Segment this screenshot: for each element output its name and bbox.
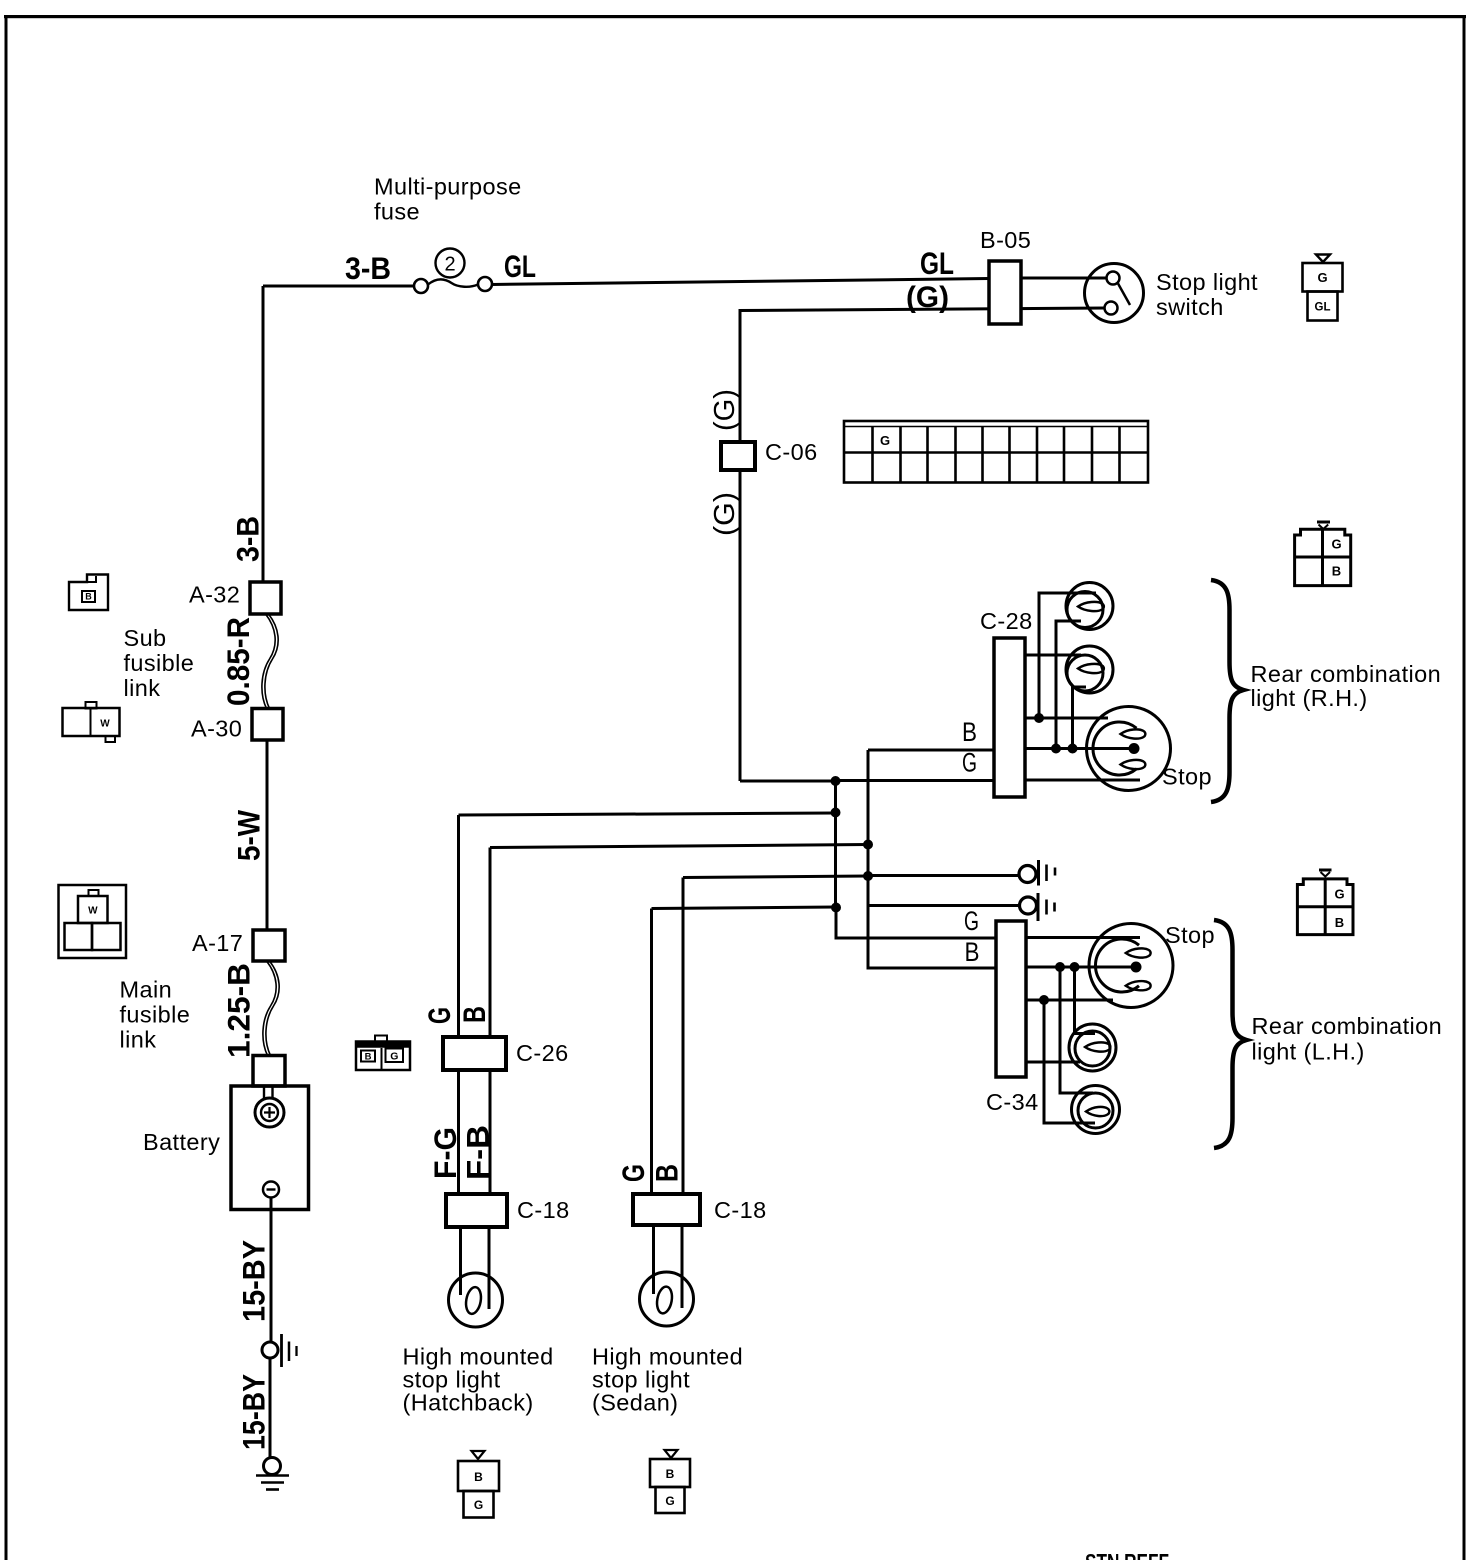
junction dot sedan G [831,903,841,913]
svg-text:F-B: F-B [460,1125,496,1180]
wire 3-B vertical [262,286,265,582]
svg-text:B: B [649,1164,685,1182]
connector icon 2x2 LH [1297,870,1353,935]
connector icon B G side-by-side near C-26 [356,1036,410,1071]
svg-text:3-B: 3-B [230,516,266,562]
svg-text:F-G: F-G [427,1127,463,1179]
wire sedan B riser [683,876,868,1194]
body ground connector 1 [1019,866,1036,883]
svg-text:(G): (G) [906,281,949,314]
svg-text:B: B [1335,915,1344,930]
junction dot pin1 [1034,713,1044,723]
junction dot pin3 LH [1039,995,1049,1005]
svg-text:B: B [456,1006,492,1023]
tail bulb 1 LH lead riser [1044,1000,1095,1123]
svg-text:STN REFF: STN REFF [1085,1549,1169,1560]
junction dot hatchback G [831,808,841,818]
connector icon G/GL triangle [1316,255,1330,263]
fuse number 2 circle [436,249,465,278]
svg-text:G: G [1331,537,1341,552]
tail bulb 2 LH [1069,1024,1116,1071]
wires C-26 to C-18 [459,1070,491,1194]
svg-text:fuse: fuse [374,199,420,225]
connector C-06 [721,442,755,470]
svg-text:fusible: fusible [124,650,195,676]
tail bulb 1 LH top lead riser [1060,967,1093,1093]
wire from B-05 to switch top pin [1021,277,1106,280]
brace RH [1211,580,1244,802]
wire B net vertical [868,750,996,968]
svg-text:B: B [1332,564,1341,579]
stop bulb LH [1089,924,1173,1008]
wires C-18 to hatchback bulb [461,1227,490,1309]
junction dot B1 [1051,744,1061,754]
svg-text:switch: switch [1156,294,1224,320]
tail bulb 1 lead riser [1039,593,1096,718]
svg-text:C-34: C-34 [986,1089,1039,1115]
svg-text:GL: GL [504,248,536,284]
battery plus terminal [255,1098,284,1127]
svg-text:W: W [88,906,98,917]
tail bulb 2 RH [1066,646,1113,693]
stop light switch body [1085,264,1144,323]
svg-text:fusible: fusible [120,1002,191,1028]
connector A-17 [253,930,285,961]
switch lever [1118,284,1130,306]
svg-text:B: B [965,937,980,967]
connector C-26 [443,1037,506,1070]
svg-text:light (L.H.): light (L.H.) [1252,1039,1365,1065]
svg-text:(G): (G) [709,389,741,431]
svg-text:(Sedan): (Sedan) [592,1390,678,1416]
tail bulb 1 RH [1066,583,1113,630]
border frame left [5,15,8,1560]
connector icon B/G sedan [665,1450,678,1458]
svg-text:G: G [665,1494,674,1508]
connector C-18 hatchback [446,1194,507,1227]
connector icon G/GL top cell [1303,263,1343,292]
svg-text:Rear combination: Rear combination [1252,1013,1443,1039]
connector C-28 [994,638,1025,797]
junction dot B2 [1068,744,1078,754]
connector C-34 [996,921,1026,1077]
svg-text:G: G [474,1498,483,1512]
svg-text:C-18: C-18 [517,1197,570,1223]
svg-text:A-32: A-32 [189,582,240,608]
svg-text:Sub: Sub [124,625,167,651]
C-34 G wire to stop bulb arc top [1026,936,1140,939]
tail bulb 2 bottom lead riser [1073,687,1087,749]
wire 15-BY upper [270,1198,273,1343]
wire G net vertical [836,781,997,938]
wire hatchback B riser [490,845,868,1041]
border frame right [1463,15,1466,1560]
svg-text:Multi-purpose: Multi-purpose [374,174,522,200]
switch top contact [1107,272,1120,285]
svg-text:Stop light: Stop light [1156,269,1258,295]
connector icon 2x2 RH [1295,522,1351,586]
wire C-06 drop to G junction [740,780,836,783]
svg-text:A-17: A-17 [192,930,243,956]
svg-text:G: G [615,1164,651,1182]
wire G into C-28 [836,779,995,782]
svg-text:G: G [964,906,979,936]
svg-text:Main: Main [120,977,173,1003]
svg-text:B: B [365,1052,372,1063]
bottom ground [264,1458,281,1475]
svg-text:C-18: C-18 [714,1197,767,1223]
connector icon B/G hatchback [472,1451,485,1459]
battery body [231,1086,309,1210]
tail bulb 1 bottom lead riser [1056,621,1081,749]
svg-text:B: B [962,717,977,747]
fuse F2 left terminal [414,279,428,293]
junction dot in stop bulb RH [1129,743,1140,754]
sub fusible link icon [69,575,108,611]
high mounted stop light bulb hatchback [449,1273,503,1327]
svg-text:G: G [1334,887,1344,902]
svg-text:3-B: 3-B [345,250,391,286]
wires C-18 to sedan bulb [654,1225,683,1308]
svg-text:Rear combination: Rear combination [1251,661,1442,687]
svg-text:link: link [120,1027,157,1053]
connector icon G/GL bottom cell [1308,292,1338,321]
fuse F2 right terminal [478,277,492,291]
wire GL to B-05 [492,279,989,285]
svg-text:0.85-R: 0.85-R [220,617,256,706]
wire G return from switch to C-06 drop [740,308,1105,444]
svg-text:G: G [421,1007,457,1024]
svg-text:B: B [474,1470,483,1484]
svg-text:light (R.H.): light (R.H.) [1251,685,1368,711]
body ground connector 2 [1020,897,1037,914]
wire sedan G riser [652,907,837,1194]
svg-text:G: G [390,1051,398,1063]
svg-text:G: G [880,433,890,448]
battery terminal connector box [253,1056,285,1087]
C-34 pin3 wire to stop bulb arc bottom [1026,999,1113,1002]
wire 15-BY lower [269,1358,272,1458]
tail bulb 2 LH top lead riser [1075,967,1096,1034]
svg-text:15-BY: 15-BY [236,1240,272,1322]
C-34 B wire to stop bulb [1026,966,1136,969]
svg-text:(Hatchback): (Hatchback) [403,1390,534,1416]
C-28 pin1 wire to stop bulb arc top [1025,717,1108,720]
connector A-32 [250,582,281,614]
wire to body ground 2 [868,904,1020,907]
svg-text:B-05: B-05 [980,227,1031,253]
tail bulb 1 LH [1072,1086,1120,1134]
svg-text:Battery: Battery [143,1129,220,1155]
brace LH [1214,920,1247,1148]
svg-text:C-26: C-26 [516,1040,569,1066]
wire hatchback G riser [459,813,836,1040]
mid body ground connector [262,1342,278,1358]
stop bulb RH [1087,707,1171,791]
junction block grid [844,421,1148,483]
svg-text:15-BY: 15-BY [236,1374,272,1450]
main fusible link icon [59,885,127,958]
fuse F2 element curve [428,279,478,286]
svg-text:(G): (G) [709,492,741,536]
wire to body ground 1 [868,874,1019,877]
battery minus terminal [263,1182,279,1198]
connector C-18 sedan [633,1194,700,1225]
svg-text:GL: GL [1315,302,1331,314]
wire below C-06 [739,470,742,781]
fusible link wave A-32 to A-30 [262,614,275,709]
junction dot in stop bulb LH [1131,962,1142,973]
svg-text:W: W [100,719,110,730]
svg-text:C-06: C-06 [765,439,818,465]
junction dot B2 LH [1070,962,1080,972]
svg-text:Stop: Stop [1162,764,1212,790]
border frame top [4,15,1466,18]
svg-text:link: link [124,675,161,701]
connector A-30 [252,709,283,741]
svg-text:C-28: C-28 [980,608,1033,634]
svg-text:B: B [85,592,92,602]
connector icon W single [63,702,120,742]
svg-text:1.25-B: 1.25-B [221,963,257,1058]
svg-text:5-W: 5-W [231,810,267,861]
wire 3-B horizontal [263,285,414,288]
C-28 pin3 wire to tail bulb 2 [1025,654,1081,657]
svg-text:A-30: A-30 [191,716,242,742]
C-34 pin4 wire to tail bulb 2 bottom [1026,1061,1080,1064]
svg-text:GL: GL [920,245,954,281]
svg-text:2: 2 [444,254,455,276]
C-28 G wire to stop bulb arc bottom [1025,779,1140,782]
wire 5-W [266,740,269,930]
C-28 B wire to stop bulb [1025,747,1134,750]
switch bottom contact [1105,302,1118,315]
junction dot G net top [831,776,841,786]
junction dot sedan B [863,871,873,881]
connector B-05 [989,261,1021,324]
junction dot B1 LH [1055,962,1065,972]
svg-text:Stop: Stop [1165,922,1215,948]
battery leads into plus terminal [264,1086,273,1100]
fusible link wave A-17 to battery [263,961,276,1056]
svg-text:G: G [962,748,977,778]
junction dot hatchback B [863,840,873,850]
svg-text:B: B [666,1467,675,1481]
high mounted stop light bulb sedan [640,1272,694,1326]
svg-text:G: G [1317,270,1327,285]
